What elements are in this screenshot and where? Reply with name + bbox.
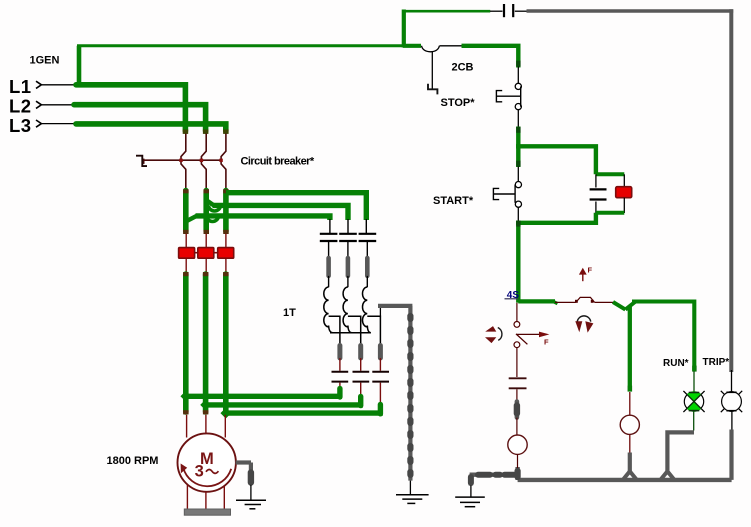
wire sec cap upper leads [340,358,381,371]
wire coil lower lead [629,434,631,453]
lamp TRIP tbar top [726,391,736,393]
wire L3 green [76,124,226,131]
wire motor ground stub [236,460,252,464]
wire timer lead lower [623,198,625,213]
wire fuse link 2-3 [214,252,218,254]
svg-text:RUN*: RUN* [663,358,689,369]
wire motor ground knot [248,473,254,483]
wire 4S node right [518,299,555,303]
wire bus step [515,467,519,480]
contact 4S timed contact [576,297,595,302]
wire left bus stub [470,473,519,477]
wire timer lead upper [623,174,625,187]
junction diamond f3h2 [220,400,231,411]
wire ground lead [470,486,472,498]
wire pole2 output green [203,191,209,232]
motor rotation arc [183,468,231,486]
wire tip pole3 top [223,189,229,193]
wire motor feed3 green [223,274,229,412]
wire fuse link 1-2 [195,252,198,254]
ground control bus [455,497,485,507]
junction diamond L1xL2 [180,100,190,110]
junction run to bus V [660,471,674,480]
arrow L3 [36,120,41,127]
junction dot pole3 [219,159,222,162]
capacitor seal-in plate2 [590,198,607,200]
lamp RUN tbar bottom [689,410,700,412]
contact STOP terminal lower [515,104,521,110]
wire green stop feed [462,46,519,68]
contact switch terminal lower [514,342,520,348]
wire motor feed2 green [203,274,209,412]
svg-text:2CB: 2CB [452,62,474,74]
wire tip pole1 top [183,189,189,193]
wire motor lead1 [186,415,188,438]
wire gray fuse knot [514,406,520,414]
wire riser knots [407,316,413,475]
lamp RUN body [684,392,703,411]
resistor timer element (red block) [616,187,632,198]
fuse F2 [198,248,214,259]
wire seal-in bottom [516,213,596,223]
wire sec2 green corner [358,397,363,406]
wire stop lower lead [517,110,519,128]
wire 4S contact to junction [595,301,614,303]
wire start to 4S node [516,221,520,303]
ground 1T [396,495,429,504]
wire capacitor lead upper [595,174,597,187]
junction hop H2 [209,205,221,211]
svg-text:1800 RPM: 1800 RPM [107,455,159,467]
wire 1T p1 stub [329,219,331,233]
wire bus corner knot [468,477,474,483]
arrow L1 [36,81,41,88]
svg-text:L2: L2 [9,96,31,117]
node 4S underline [505,298,519,300]
wire tip start top [516,161,520,167]
svg-text:L1: L1 [9,76,31,97]
contact START bar [514,185,516,203]
wire 1T cap lower leads [329,242,368,258]
junction hop H3 [207,216,219,222]
svg-text:1T: 1T [283,307,296,319]
wire H1 to transformer [226,193,366,220]
wire pole1 output green [183,191,189,232]
wire fuse3 upper lead [225,234,227,248]
wire seal-in bottom right [596,211,624,215]
motor base plate [184,509,230,515]
wire 2CB to stop [440,45,463,47]
breaker operator hook [136,156,147,166]
wire tip feed1 bottom [183,410,189,414]
wire switch upper lead [516,303,518,322]
svg-text:TRIP*: TRIP* [703,357,730,368]
wire tip pole3 [223,230,229,234]
capacitor 1T p1 plates [320,234,338,241]
contact START terminal upper [515,182,521,188]
wire coil3 bottom connector [367,326,371,333]
wire switch lower lead [516,348,518,377]
button STOP actuator [496,91,520,102]
capacitor branch plate1 [509,377,527,379]
wire seal-in top [516,146,596,174]
svg-text:L3: L3 [9,115,31,136]
breaker 2CB operator hook [428,84,437,95]
svg-text:Circuit breaker*: Circuit breaker* [241,155,315,167]
symbol rotation left [485,326,502,343]
capacitor sec3 plates [372,372,389,382]
wire tip run rail bottom [692,366,696,372]
capacitor 1T p3 plates [359,234,377,241]
wire coil1 bottom connector [329,326,333,333]
wire meter lower lead [517,454,519,468]
wire tip start bottom [516,221,520,227]
wire seal-in top right [596,172,624,176]
wire 1T ground riser [408,306,412,481]
svg-text:3: 3 [195,463,204,481]
wire tip feed1 top [183,272,189,276]
wire start upper lead [517,166,519,181]
lamp RUN cross [687,395,701,409]
wire tip feed3 top [223,272,229,276]
arrow L2 [36,101,41,108]
fuse F3 [218,248,234,259]
wire run lamp lower lead [693,411,695,430]
wire 1T gray segment p2 [346,258,351,276]
junction diamond f3h1 [220,391,231,402]
wire 1GEN riser [77,46,82,87]
breaker 2CB operator stem [431,52,433,90]
wire motor lead3 [224,415,226,438]
wire green into 2CB [403,44,421,48]
wire 1T neutral gray horizontal [378,304,412,308]
wire capacitor lead lower [595,202,597,214]
wire stop to start green [516,127,520,168]
lamp RUN rays [683,391,704,412]
wire coil gray drop [628,453,632,473]
wire 1GEN top horizontal [77,44,406,47]
wire riser to top rail [402,10,406,48]
wire 1T p3 stub [365,219,367,233]
lamp TRIP rays [721,391,742,412]
wire sec H3 [226,410,383,415]
contact STOP bar [520,87,522,107]
junction diamond f1h1 [180,391,191,402]
wire sec H1 [186,394,342,399]
terminal 1T out1 gray [337,346,342,359]
wire start lower lead [517,207,519,221]
wire to 4S contact [555,301,576,303]
capacitor seal-in plate1 [590,188,607,190]
svg-text:START*: START* [433,195,474,207]
wire junction Y left diagonal [613,302,625,310]
wire L1 green [76,85,185,131]
wire 1T gray segment p1 [326,258,331,276]
wire sec1 green corner [337,389,342,398]
breaker trip bar [144,159,222,161]
wire trip lamp upper lead [731,370,733,392]
wire 1T neutral stub [379,306,381,316]
lamp RUN tbar top [689,392,700,394]
wire tip mcoil bottom [628,386,632,392]
wire run lamp gray return [667,432,694,472]
wire coil2 bottom connector [348,326,352,333]
motor label tilde [206,470,218,474]
wire motor leg3 [223,486,225,510]
wire L2 green [74,105,206,131]
breaker trip bar tick [143,159,145,164]
svg-text:1GEN: 1GEN [30,55,60,67]
wire sec3 green corner [378,405,383,414]
wire trip gray drop [729,430,733,480]
contact 4S tick left [575,300,578,303]
meter body [508,435,527,454]
capacitor branch plate2 [509,387,527,389]
wire tip pole1 [183,230,189,234]
wire H3 diagonal [186,216,197,222]
wire fuse2 lower lead [205,258,207,273]
wire riser ground lead [409,481,411,494]
wire junction Y right diagonal [625,302,635,310]
contact STOP terminal upper [515,83,521,89]
wire bus ground drop [469,475,473,486]
inductor 1T winding 3 [362,287,367,327]
svg-text:F: F [544,337,549,346]
junction diamond f3h3 [220,408,231,419]
wire 1T coil upper leads [329,276,368,287]
wire cap right lead [515,10,528,12]
wire delta jumpers [329,316,381,345]
svg-text:STOP*: STOP* [441,97,476,109]
contact switch terminal upper [514,322,520,328]
wire main ground bus [518,478,732,482]
wire motor ground drop [249,463,253,485]
terminal 1T out3 gray [378,346,383,359]
symbol rotation middle [575,316,593,333]
junction dot pole2 [200,159,203,162]
ground motor [236,500,266,509]
wire tip L1 [183,130,189,134]
wire fuse1 upper lead [185,234,187,248]
wire motor lead2 [205,415,207,434]
capacitor sec1 plates [332,372,349,382]
inductor 1T winding 1 [324,287,329,327]
junction diamond L2xL3 [201,119,211,129]
junction diamond f2h2 [200,400,211,411]
wire L1 lead [42,84,78,86]
contact START terminal lower [515,201,521,207]
wire coil upper lead [629,392,631,415]
lamp RUN sector top [687,391,701,401]
wire L2 lead [42,104,76,106]
wire tip stop top [516,61,520,67]
coil M contactor coil [620,415,639,434]
wire fuse1 lower lead [185,258,187,273]
junction bus step knot [514,471,520,477]
wire L3 lead [42,123,78,125]
wire tip feed2 bottom [203,410,209,414]
wire cap left lead [490,10,503,12]
breaker 2CB arc [422,46,440,52]
wire gray fuse segment [515,402,520,418]
wire sec H2 [206,402,363,407]
wire motor ground lead [250,485,252,500]
wire H2 diagonal [206,200,214,206]
wire tip feed2 top [203,272,209,276]
capacitor top C-top plate1 [503,4,505,17]
wire junction to RUN rail [632,302,694,372]
wire sec cap lower leads [340,383,381,407]
wire run lamp upper lead [693,371,695,392]
button START actuator [493,188,515,199]
motor M body [178,433,236,491]
wire fuse3 lower lead [225,258,227,273]
wire tip L3 [223,130,229,134]
wire top rail green [402,10,490,13]
wire pole3 output green [223,191,229,232]
wire motor leg2 [205,492,207,510]
wire fuse2 upper lead [205,234,207,248]
wire tip stop bottom [516,127,520,133]
wire tip L2 [203,130,209,134]
wire 1T gray segment p3 [365,258,370,276]
lamp TRIP tbar bottom [726,410,736,412]
terminal 1T out2 gray [358,346,363,359]
wire 1T p2 stub [347,219,349,233]
breaker pole2 [201,134,206,190]
symbol F arrow up [579,266,593,282]
wire 4S nub [553,301,558,303]
switch blade [516,334,527,344]
fuse F1 [179,248,195,259]
wire motor leg1 [186,485,188,510]
junction coil to bus V [623,471,637,480]
breaker pole3 [221,134,226,190]
wire meter upper lead [516,418,518,436]
wire tip pole2 top [204,189,210,193]
arrow switch force [539,332,549,338]
capacitor sec2 plates [353,372,370,382]
lamp RUN sector bottom [687,402,701,412]
wire tip feed3 bottom [223,410,229,414]
junction diamond f2h1 [200,391,211,402]
capacitor 1T p2 plates [339,234,357,241]
wire bus knots [478,472,516,478]
wire H2 to transformer [213,205,349,220]
lamp TRIP body [722,392,742,412]
motor rotation arrowhead [181,464,188,474]
wire top rail gray run [527,9,734,13]
inductor 1T winding 2 [343,287,348,327]
wire motor feed1 green [183,274,189,412]
breaker pole1 [181,134,186,190]
wire stop upper lead [517,66,519,83]
capacitor top C-top plate2 [512,4,514,17]
wire junction down to M coil [628,306,632,392]
wire cap lower lead [516,389,518,402]
contact 4S tick right [591,300,594,303]
svg-text:F: F [588,266,593,275]
wire tip pole2 [204,230,210,234]
wire right rail vertical [729,9,733,372]
junction diamond L1xL3 [180,119,190,129]
wire H3 to transformer [196,216,330,220]
switch force line [517,333,541,335]
wire trip lamp lower lead [731,412,733,431]
junction dot pole1 [179,159,182,162]
